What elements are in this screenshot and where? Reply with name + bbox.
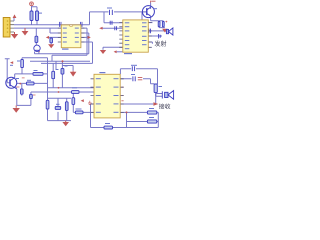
svg-text:接收: 接收 bbox=[159, 103, 171, 111]
svg-text:发射: 发射 bbox=[155, 40, 167, 48]
